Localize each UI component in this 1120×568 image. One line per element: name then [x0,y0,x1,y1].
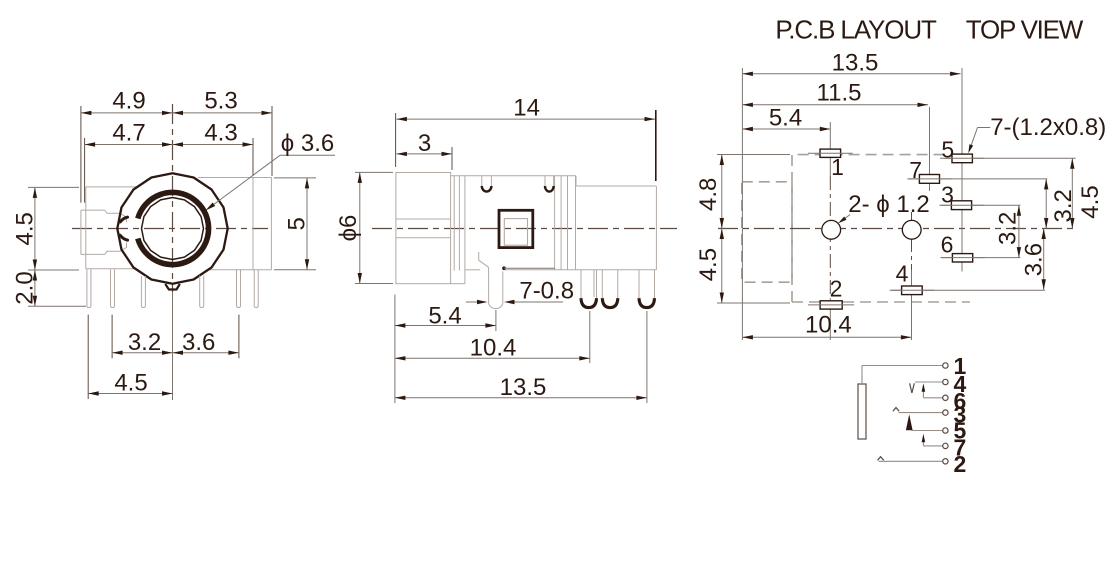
svg-text:3: 3 [418,130,431,157]
svg-text:5.3: 5.3 [204,88,237,115]
front view pin leg 5 [237,269,241,307]
front view contact slot [117,223,120,234]
dimension 5.4 side [395,303,496,330]
svg-text:4.8: 4.8 [695,178,722,211]
dimension 5 right [284,178,311,270]
dimension 4.3 [173,120,254,147]
schematic wire pin5 [912,430,944,432]
svg-text:3: 3 [941,182,954,208]
svg-text:2- ϕ 1.2: 2- ϕ 1.2 [848,191,929,218]
dimension phi 3.6 leader [206,130,336,210]
schematic wire pin3 [899,412,944,414]
dimension 3.2 pcb outer [1044,179,1077,229]
extension lines left [28,187,86,306]
dimension 3 [396,130,452,157]
extension lines bottom [88,315,239,399]
svg-text:ϕ 3.6: ϕ 3.6 [281,130,334,157]
svg-text:ϕ6: ϕ6 [335,215,362,242]
extension lines top right [253,106,272,176]
dimension 7-0.8 label [466,278,574,305]
svg-text:2: 2 [830,276,843,302]
svg-text:5: 5 [284,217,311,230]
side view rear flange lines [555,176,576,270]
pcb column line 4 [911,212,913,340]
dimension 10.4 pcb [742,312,911,340]
front view vertical centerline [172,104,174,400]
svg-text:5.4: 5.4 [769,105,802,132]
pcb horizontal centerline [718,228,1076,230]
side view terminal slot 1 [482,176,492,192]
schematic terminal circle pin7 [943,443,948,448]
dimension 5.3 [173,88,273,116]
dimension 4.5 left [11,187,38,270]
dimension 4.5 pcb right [1070,158,1104,228]
pad 3 [939,182,983,210]
svg-text:P.C.B LAYOUT: P.C.B LAYOUT [775,14,937,44]
schematic wire pin4 [915,381,943,383]
pcb row line pad5 [945,157,1076,159]
svg-text:4.3: 4.3 [204,120,237,147]
front view inner bore [142,198,204,260]
front view bottom locating bump [165,284,180,290]
dimension 11.5 pcb [742,80,928,107]
front view knurled bezel [117,173,227,283]
mounting hole right [902,220,921,239]
svg-text:4.5: 4.5 [11,212,38,245]
front view body left block [86,187,137,269]
dimension 2.0 left [11,270,38,306]
pad 2 [808,276,854,309]
pad 6 [940,232,984,262]
side view switch window [499,210,533,247]
dimension 13.5 side [395,374,647,401]
schematic contact chevron pin2 [878,457,884,461]
svg-text:10.4: 10.4 [805,312,852,339]
svg-text:10.4: 10.4 [470,335,517,362]
schematic terminal circle pin3 [943,410,948,415]
schematic make contact pin5 [906,414,913,430]
svg-text:7-(1.2x0.8): 7-(1.2x0.8) [990,114,1106,141]
front view horizontal centerline [72,228,268,230]
side view washer flange [454,176,465,284]
front view threaded ring [138,192,209,264]
svg-text:3.2: 3.2 [995,212,1022,245]
dimension 13.5 pcb [742,50,960,77]
extension line 3 [451,147,453,170]
svg-text:6: 6 [941,232,954,258]
schematic pin number 2 [954,451,967,477]
label 2-phi1.2 [838,191,930,223]
pad 1 [808,149,853,180]
dimension 3.2 pcb inner [995,205,1022,257]
svg-text:4.7: 4.7 [112,120,145,147]
side view rear pin 1 [581,270,597,308]
svg-text:4.5: 4.5 [114,370,147,397]
schematic wire pin6 [923,397,943,399]
mounting hole left [822,220,841,239]
svg-text:2.0: 2.0 [11,271,38,304]
front view contact finger upper [120,217,127,222]
dimension 4.5 bottom [88,370,172,397]
side view rear pin 2 [602,270,618,308]
side view horizontal centerline [372,228,677,230]
schematic terminal circle pin2 [943,459,948,464]
schematic terminal circle pin5 [943,428,948,433]
dimension 10.4 side [395,335,590,362]
extension lines phi6 [355,172,393,283]
extension line 13.5 side [646,311,648,403]
dimension 3.2 bottom [112,329,172,356]
side view terminal slot 2 [545,176,554,192]
dimension 5.4 pcb [742,105,830,132]
schematic pin number 6 [954,388,967,414]
schematic sleeve bar [858,384,866,439]
dimension 3.6 pcb [1020,229,1047,290]
dimension 3.6 bottom [173,329,239,356]
schematic contact V pin4 [910,383,915,393]
pcb row line pad4 [891,289,1045,291]
svg-text:TOP VIEW: TOP VIEW [966,14,1084,44]
schematic pin number 3 [954,402,967,428]
svg-text:7-0.8: 7-0.8 [519,278,574,305]
svg-text:2: 2 [954,451,967,477]
side view rear pin 3 [639,270,655,308]
pcb row line pad7 [908,178,1047,180]
svg-text:4: 4 [896,261,909,287]
front view body right block [198,178,271,270]
svg-text:4.5: 4.5 [1077,185,1104,218]
svg-text:3.2: 3.2 [128,329,161,356]
schematic wire pin1 [862,366,943,385]
label 7-(1.2x0.8) [968,114,1106,154]
svg-text:3.6: 3.6 [182,329,215,356]
dimension phi 6 [335,172,362,283]
pad 4 [890,261,935,295]
schematic terminal circle pin6 [943,395,948,400]
side view barrel [396,173,465,284]
dimension 4.7 [85,120,173,147]
side view junction dot [502,266,555,270]
svg-text:1: 1 [831,154,844,180]
schematic contact chevron pin3 [893,408,899,412]
svg-text:13.5: 13.5 [832,50,879,77]
svg-text:3.6: 3.6 [1020,243,1047,276]
svg-text:11.5: 11.5 [817,80,862,107]
front view pin leg 1 [87,269,91,307]
pcb barrel hidden outline [742,182,792,282]
schematic wire pin2 [879,460,944,462]
schematic wire pin7 [923,445,943,447]
svg-text:13.5: 13.5 [500,374,547,401]
dimension 4.5 pcb left [695,229,724,304]
svg-text:3.2: 3.2 [1050,189,1077,222]
svg-text:5: 5 [941,136,954,162]
pcb left extension rows [717,155,790,304]
pcb row line pad6 [942,257,1020,259]
extension lines 5.4 side [395,295,496,403]
dimension 4.8 pcb [695,155,724,229]
pad 7 [907,157,951,183]
svg-text:7: 7 [909,157,922,183]
extension lines 14 [396,110,656,181]
front view pin leg 2 [111,269,115,307]
extension line 10.4 side [589,311,591,363]
pcb row line pad3 [941,204,1020,206]
schematic pin number 7 [954,434,967,460]
schematic switch arrow 6-4 [922,383,926,398]
front view contact finger lower [120,235,127,240]
side view front pin [479,252,503,309]
pcb column line 5-3-6 [961,68,963,272]
title [775,14,1083,44]
extension lines right [274,178,316,270]
pcb left extension column [741,68,743,340]
extension lines top left [81,106,85,203]
schematic pin number 1 [954,353,967,379]
schematic terminal circle pin4 [943,379,948,384]
schematic terminal circle pin1 [943,363,948,368]
pcb body hidden outline [792,155,970,302]
pad 5 [940,136,984,162]
schematic pin number 5 [954,417,967,443]
pcb column line 7 [929,107,931,191]
pcb column line 1-2 [829,122,831,340]
schematic switch arrow 7-5 [922,434,926,446]
front view pin leg 6 [254,270,258,308]
front view pin leg 4 [200,276,204,308]
svg-text:14: 14 [513,95,540,122]
schematic pin number 4 [954,371,967,397]
dimension 4.9 [81,88,173,116]
front view left contact tab [81,210,127,254]
svg-text:4.9: 4.9 [112,88,145,115]
side view body outline [451,176,657,270]
svg-text:4.5: 4.5 [695,248,722,281]
svg-text:5.4: 5.4 [428,303,461,330]
dimension 14 [396,95,655,122]
front view pin leg 3 [141,276,145,308]
